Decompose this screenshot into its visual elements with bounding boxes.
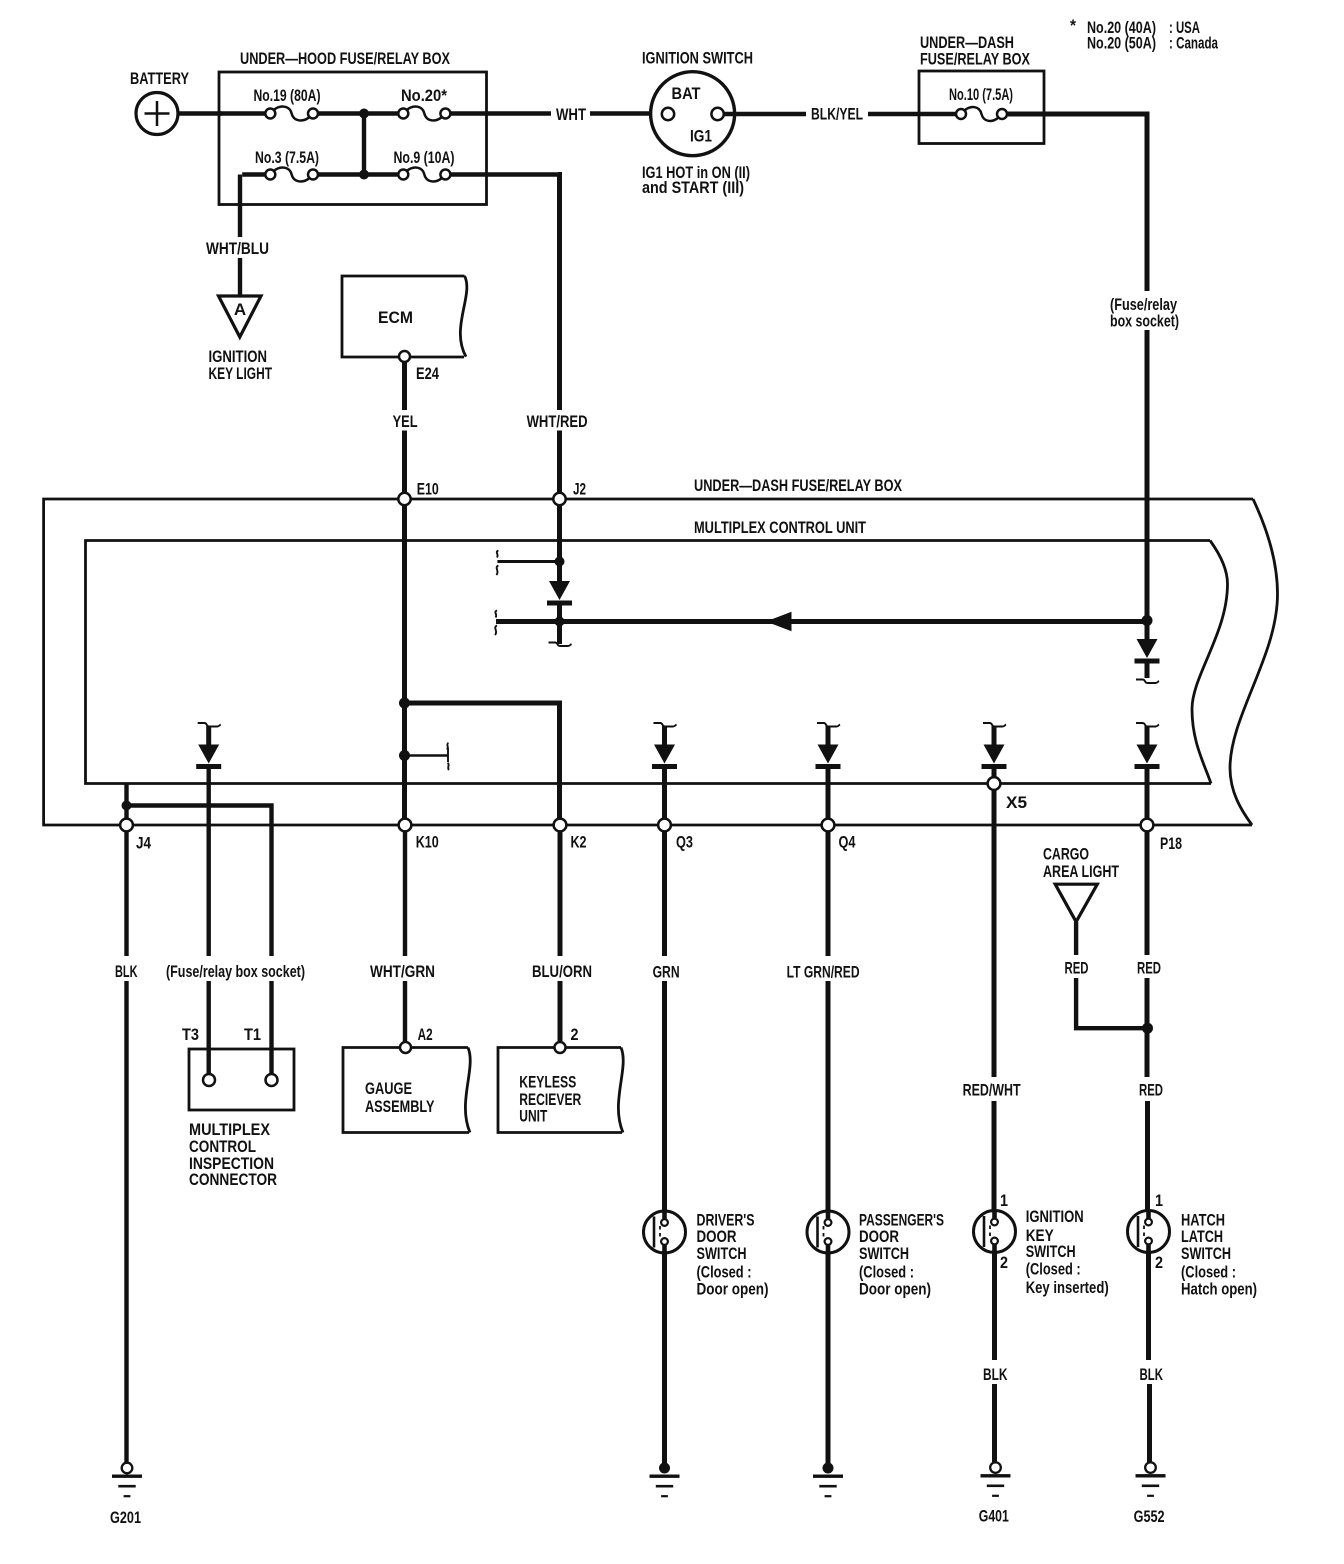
svg-text:SWITCH: SWITCH — [697, 1244, 747, 1263]
wire to T1 — [269, 981, 273, 1075]
svg-text:ASSEMBLY: ASSEMBLY — [365, 1097, 435, 1116]
svg-text:UNDER—HOOD FUSE/RELAY BOX: UNDER—HOOD FUSE/RELAY BOX — [240, 49, 450, 68]
svg-text:SWITCH: SWITCH — [1181, 1244, 1231, 1263]
svg-text:K2: K2 — [571, 832, 587, 851]
svg-text:WHT: WHT — [556, 105, 586, 124]
svg-text:2: 2 — [571, 1025, 579, 1044]
svg-text:WHT/BLU: WHT/BLU — [206, 239, 269, 258]
connector pin 2 — [555, 1042, 566, 1053]
svg-text:2: 2 — [1000, 1253, 1008, 1272]
wire BLK to G201 — [124, 832, 128, 957]
ground G201 — [122, 1463, 133, 1474]
wire fuse row 1 — [219, 111, 487, 115]
svg-text:IG1: IG1 — [690, 127, 712, 146]
ECM U1 — [342, 276, 467, 357]
wire LT GRN/RED — [826, 832, 831, 957]
fuse No.10 (7.5A) — [919, 112, 956, 116]
wire to ground — [826, 1251, 831, 1463]
wire YEL — [402, 362, 407, 410]
ground (passenger door switch) — [823, 1463, 834, 1474]
node K10 stub — [399, 750, 410, 761]
svg-text:J4: J4 — [136, 834, 151, 853]
wire junction vertical — [362, 114, 366, 175]
svg-text:and START (III): and START (III) — [642, 178, 744, 197]
node J2/diode junction — [555, 557, 565, 567]
ignition switch SW1 — [651, 72, 735, 156]
svg-text:Q4: Q4 — [839, 832, 856, 851]
svg-text:Door open): Door open) — [859, 1280, 931, 1299]
wire GRN — [662, 832, 667, 957]
svg-text:No.3 (7.5A): No.3 (7.5A) — [255, 148, 319, 167]
wire J2 stub below bus — [557, 622, 562, 645]
wire RED (P18) — [1145, 832, 1150, 956]
svg-text:: Canada: : Canada — [1169, 34, 1218, 53]
node K10 branch — [399, 698, 410, 709]
wire battery to under-hood box — [178, 111, 222, 115]
svg-text:UNDER—DASH FUSE/RELAY BOX: UNDER—DASH FUSE/RELAY BOX — [694, 476, 902, 495]
svg-text:T1: T1 — [244, 1025, 261, 1044]
connector P18 — [1141, 819, 1154, 832]
svg-text:Key inserted): Key inserted) — [1026, 1278, 1109, 1297]
svg-text:BLU/ORN: BLU/ORN — [532, 962, 592, 981]
svg-text:RED: RED — [1139, 1081, 1163, 1100]
keyless reciever unit box — [498, 1048, 623, 1133]
wire WHT/BLU — [238, 175, 242, 238]
node bus/J2 — [555, 617, 565, 627]
terminal T3 — [203, 1074, 215, 1086]
driver door switch SW2 — [644, 1211, 686, 1253]
battery B1 — [136, 93, 178, 135]
wire BLK — [992, 1251, 997, 1361]
svg-text:Door open): Door open) — [697, 1280, 769, 1299]
connector J4 — [120, 819, 133, 832]
node J4/T1 branch — [122, 801, 132, 811]
internal bus wire with arrow — [496, 619, 1147, 624]
svg-text:RED: RED — [1065, 958, 1089, 977]
svg-text:G401: G401 — [979, 1507, 1009, 1526]
diode D4 (Q3 column) — [654, 723, 677, 727]
svg-text:UNIT: UNIT — [519, 1106, 547, 1125]
svg-text:No.10 (7.5A): No.10 (7.5A) — [949, 85, 1013, 104]
svg-text:A: A — [234, 300, 246, 319]
svg-text:GAUGE: GAUGE — [365, 1079, 412, 1098]
wire branch to T1 — [127, 806, 272, 957]
fuse No.3 (7.5A) — [265, 170, 275, 180]
wire RED (cargo light) — [1074, 922, 1078, 955]
internal stub (K10) — [405, 754, 449, 757]
svg-text:2: 2 — [1155, 1253, 1163, 1272]
svg-text:ECM: ECM — [378, 308, 413, 327]
svg-text:RED: RED — [1137, 958, 1161, 977]
node bus/P18 — [1142, 615, 1153, 626]
svg-text:BLK: BLK — [983, 1365, 1008, 1384]
svg-text:AREA LIGHT: AREA LIGHT — [1043, 862, 1119, 881]
wire elbow K10 to K2 — [405, 703, 560, 825]
svg-text:Q3: Q3 — [676, 832, 693, 851]
diode D5 (Q4 column) — [817, 723, 840, 727]
wire WHT to ignition switch — [487, 111, 552, 115]
ignition key switch SW4 — [974, 1211, 1016, 1253]
ground G401 — [990, 1462, 1001, 1473]
svg-text:(Closed :: (Closed : — [1026, 1260, 1081, 1279]
multiplex control inspection connector — [189, 1049, 294, 1110]
torn edge of under-dash box — [1230, 499, 1278, 825]
svg-text:J2: J2 — [573, 480, 586, 499]
connector A2 — [400, 1042, 411, 1053]
diode D7 (P18 column lower) — [1136, 723, 1159, 727]
fuse No.20* — [398, 109, 408, 119]
svg-text:CONNECTOR: CONNECTOR — [189, 1170, 277, 1189]
svg-text:BLK: BLK — [115, 962, 138, 981]
svg-text:1: 1 — [1155, 1191, 1163, 1210]
svg-text:WHT/GRN: WHT/GRN — [370, 962, 435, 981]
connector X5 — [988, 777, 1001, 790]
diode D1 (J2 column) — [557, 562, 562, 584]
wire BLU/ORN to keyless unit — [558, 832, 563, 957]
ignition key light (triangle A) — [219, 296, 262, 337]
connector E10 — [398, 493, 410, 505]
svg-text:No.19 (80A): No.19 (80A) — [254, 86, 321, 105]
gauge assembly box — [343, 1048, 470, 1133]
hatch latch switch SW5 — [1128, 1211, 1170, 1253]
svg-text:YEL: YEL — [393, 412, 418, 431]
svg-text:BATTERY: BATTERY — [130, 69, 189, 88]
node cargo light junction — [1142, 1023, 1153, 1034]
wire to ground — [662, 1251, 667, 1463]
svg-text:CARGO: CARGO — [1043, 845, 1089, 864]
svg-text:GRN: GRN — [653, 963, 680, 982]
connector E24 — [399, 351, 410, 362]
wire J4 to multiplex edge — [124, 784, 128, 826]
svg-text:No.9 (10A): No.9 (10A) — [394, 148, 455, 167]
wire fuse box socket drop — [1145, 112, 1150, 292]
internal stub (J2) — [497, 560, 559, 563]
diode D3 (T3 column) — [198, 723, 221, 727]
svg-text:K10: K10 — [416, 832, 439, 851]
svg-text:G201: G201 — [110, 1508, 141, 1527]
wire BLK — [1146, 1251, 1151, 1361]
svg-text:E24: E24 — [416, 364, 439, 383]
arrowhead (current direction) — [766, 612, 792, 631]
svg-text:LT GRN/RED: LT GRN/RED — [787, 963, 860, 982]
under-dash fuse/relay box (top) — [919, 71, 1044, 144]
fuse No.19 (80A) — [265, 109, 275, 119]
svg-text:G552: G552 — [1134, 1507, 1165, 1526]
terminal T1 — [266, 1074, 278, 1086]
svg-text:X5: X5 — [1006, 793, 1027, 812]
junction node row1/row2 tie — [359, 109, 369, 119]
passenger door switch SW3 — [807, 1211, 849, 1253]
connector K10 — [399, 819, 412, 832]
svg-text:A2: A2 — [418, 1025, 433, 1044]
under-hood fuse/relay box — [219, 72, 487, 205]
svg-text:WHT/RED: WHT/RED — [527, 412, 588, 431]
ground G552 — [1145, 1462, 1156, 1473]
connector J2 — [553, 493, 565, 505]
svg-text:FUSE/RELAY BOX: FUSE/RELAY BOX — [920, 50, 1030, 69]
diode D2 (P18 column upper) — [1145, 621, 1150, 642]
svg-text:*: * — [1070, 16, 1076, 35]
svg-text:KEY LIGHT: KEY LIGHT — [209, 364, 273, 383]
wire BLK/YEL — [724, 112, 806, 116]
wire WHT/GRN to gauge assembly — [403, 832, 407, 957]
torn edge of multiplex box — [1192, 541, 1228, 784]
connector Q3 — [658, 819, 671, 832]
svg-text:No.20 (50A): No.20 (50A) — [1087, 34, 1156, 53]
svg-text:P18: P18 — [1160, 834, 1182, 853]
svg-text:No.20*: No.20* — [401, 86, 447, 105]
fuse No.9 (10A) — [398, 170, 408, 180]
connector K2 — [554, 819, 567, 832]
svg-text:E10: E10 — [417, 480, 439, 499]
svg-text:BLK/YEL: BLK/YEL — [811, 105, 863, 124]
wire fuse row 2 — [242, 172, 557, 176]
wire E10 to K10 — [402, 505, 407, 825]
wire to T3 — [206, 981, 210, 1075]
svg-text:IGNITION SWITCH: IGNITION SWITCH — [642, 49, 753, 68]
svg-text:(Fuse/relay box socket): (Fuse/relay box socket) — [166, 962, 305, 981]
connector Q4 — [822, 819, 835, 832]
svg-text:SWITCH: SWITCH — [859, 1244, 909, 1263]
svg-text:SWITCH: SWITCH — [1026, 1242, 1076, 1261]
svg-text:box socket): box socket) — [1110, 312, 1179, 331]
svg-text:RED/WHT: RED/WHT — [963, 1081, 1021, 1100]
svg-text:BAT: BAT — [672, 84, 702, 103]
svg-text:KEYLESS: KEYLESS — [519, 1073, 576, 1092]
svg-text:Hatch open): Hatch open) — [1181, 1280, 1257, 1299]
svg-text:MULTIPLEX CONTROL UNIT: MULTIPLEX CONTROL UNIT — [694, 518, 866, 537]
diode D6 (X5 column) — [983, 723, 1006, 727]
wire J2 into multiplex — [557, 505, 562, 563]
wire WHT/RED — [557, 175, 559, 411]
ground (driver door switch) — [659, 1463, 670, 1474]
svg-text:1: 1 — [1000, 1191, 1008, 1210]
svg-text:IGNITION: IGNITION — [1026, 1207, 1084, 1226]
svg-text:T3: T3 — [182, 1025, 199, 1044]
svg-text:BLK: BLK — [1140, 1365, 1164, 1384]
